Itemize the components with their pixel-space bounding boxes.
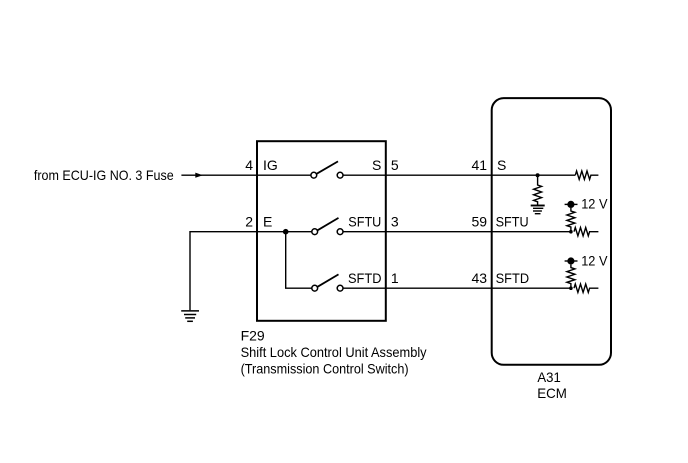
node junction SFTD: [569, 286, 573, 290]
ECM box A31: [492, 98, 611, 365]
wire fuse feed: [181, 174, 310, 176]
svg-text:12 V: 12 V: [581, 196, 608, 212]
svg-text:59: 59: [472, 213, 488, 229]
svg-text:SFTD: SFTD: [496, 270, 529, 286]
resistor SFTU (horizontal): [574, 228, 598, 236]
svg-text:S: S: [372, 157, 381, 173]
resistor SFTD (horizontal): [574, 284, 598, 292]
svg-text:Shift Lock Control Unit Assemb: Shift Lock Control Unit Assembly: [241, 344, 427, 360]
wire E to SFTD switch: [286, 232, 312, 289]
svg-text:A31: A31: [537, 369, 561, 385]
svg-text:S: S: [497, 157, 506, 173]
svg-text:43: 43: [472, 270, 488, 286]
resistor S (horizontal): [575, 171, 598, 179]
node junction SFTU: [569, 230, 573, 234]
svg-text:1: 1: [391, 270, 399, 286]
node junction S pull-down: [536, 173, 540, 177]
12 V source (SFTU): [565, 203, 578, 205]
resistor 12V-SFTU: [567, 208, 575, 232]
node junction E: [283, 229, 289, 235]
svg-text:SFTU: SFTU: [348, 213, 381, 229]
switch SFTD: [312, 274, 343, 291]
12 V source (SFTD): [565, 260, 578, 262]
svg-text:ECM: ECM: [537, 385, 567, 401]
arrowhead: [195, 173, 203, 178]
ground (left): [181, 311, 199, 321]
switch SFTU: [312, 218, 343, 235]
wire S row to ECM: [343, 174, 575, 176]
svg-text:3: 3: [391, 213, 399, 229]
svg-text:SFTD: SFTD: [348, 270, 382, 286]
svg-text:4: 4: [245, 157, 253, 173]
connector box F29: [257, 141, 386, 321]
resistor S pull-down: [534, 175, 542, 205]
switch S (IG row): [311, 161, 343, 178]
svg-text:F29: F29: [241, 328, 265, 344]
svg-text:5: 5: [391, 157, 399, 173]
wire SFTD row to ECM: [343, 287, 571, 289]
svg-text:SFTU: SFTU: [496, 213, 529, 229]
svg-text:from ECU-IG NO. 3 Fuse: from ECU-IG NO. 3 Fuse: [34, 167, 174, 183]
svg-text:2: 2: [245, 213, 253, 229]
svg-text:(Transmission Control Switch): (Transmission Control Switch): [241, 360, 409, 376]
ground (ECM): [531, 206, 545, 214]
svg-text:41: 41: [472, 157, 488, 173]
svg-text:IG: IG: [263, 157, 278, 173]
resistor 12V-SFTD: [567, 265, 575, 289]
svg-text:E: E: [263, 213, 272, 229]
wire E ground leg: [190, 232, 312, 311]
wire SFTU row to ECM: [343, 231, 571, 233]
svg-text:12 V: 12 V: [581, 252, 608, 268]
